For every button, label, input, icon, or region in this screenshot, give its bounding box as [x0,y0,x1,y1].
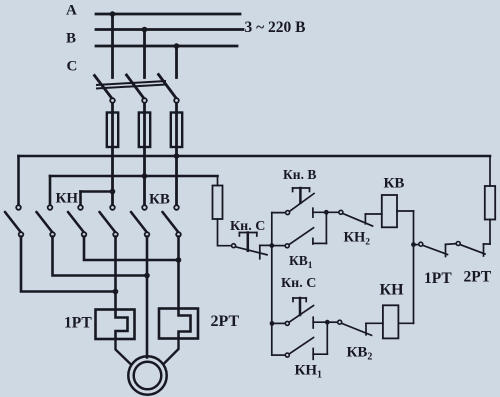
svg-text:КВ: КВ [149,192,170,208]
svg-text:Кн. С: Кн. С [230,219,265,234]
svg-text:КН2: КН2 [344,230,371,248]
svg-text:2РТ: 2РТ [464,268,492,285]
svg-text:В: В [66,31,76,47]
svg-text:1РТ: 1РТ [64,314,92,331]
svg-text:Кн. С: Кн. С [281,276,316,291]
svg-text:Кн. В: Кн. В [283,167,316,182]
svg-text:КН: КН [56,191,79,207]
svg-text:2РТ: 2РТ [211,313,240,330]
svg-text:1РТ: 1РТ [424,270,452,287]
svg-text:КН: КН [380,282,405,299]
svg-text:КВ2: КВ2 [347,345,373,363]
svg-text:КВ: КВ [384,176,405,192]
svg-text:КН1: КН1 [295,363,323,381]
svg-text:КВ1: КВ1 [289,253,313,271]
svg-text:С: С [67,59,78,75]
svg-text:А: А [66,3,77,19]
svg-text:3 ~ 220 В: 3 ~ 220 В [245,19,306,36]
